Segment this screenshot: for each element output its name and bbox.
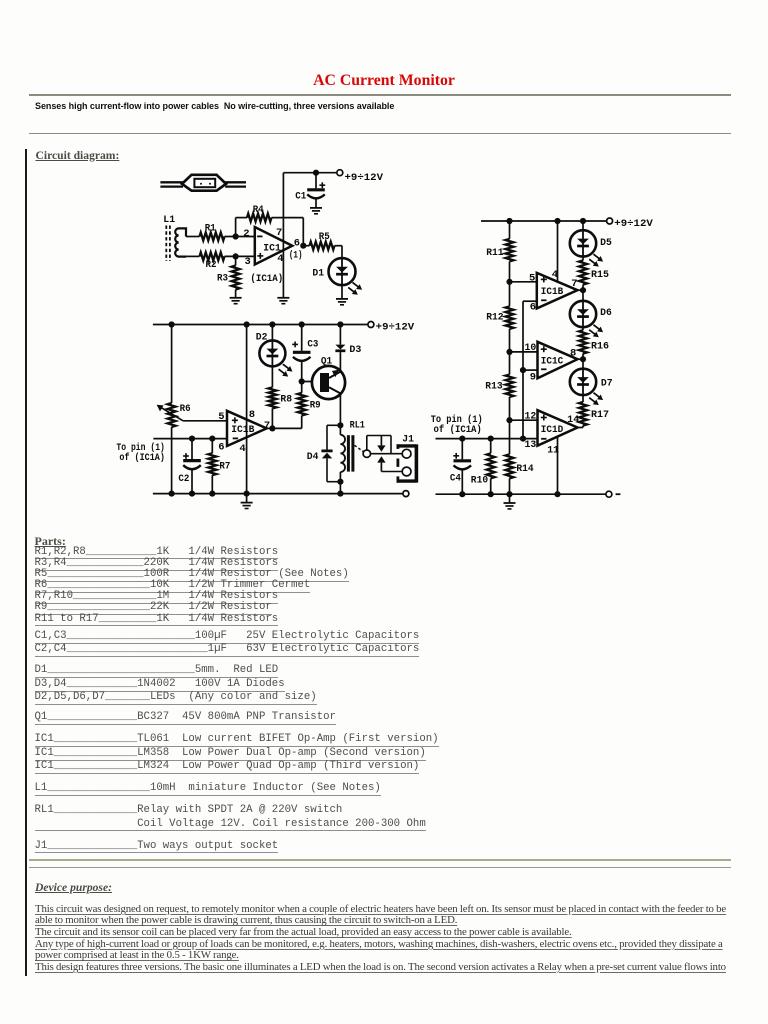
resistor R12 (486, 282, 513, 352)
ground below D1 (336, 299, 348, 305)
op-amp IC1A (255, 227, 292, 265)
capacitor C2 (178, 439, 200, 494)
svg-text:IC1B: IC1B (231, 424, 254, 435)
resistor R5 (310, 231, 335, 250)
capacitor C1 (295, 173, 325, 208)
resistor R15 (579, 257, 609, 291)
wire L1 top to R1 (186, 236, 200, 238)
output socket J1 (397, 433, 417, 482)
relay NC contact arrow (down) (377, 436, 385, 452)
minus label (616, 493, 621, 495)
wire NO contact to J1 bottom (381, 471, 402, 473)
wire pin6 down (feedback bus) (523, 301, 537, 438)
svg-text:R14: R14 (516, 463, 533, 475)
terminal +9-12V (middle) (368, 322, 374, 328)
svg-text:IC1B: IC1B (541, 286, 564, 297)
resistor R10 (471, 439, 495, 495)
junction base node (299, 378, 305, 384)
junction R13/R14 (506, 417, 512, 423)
resistor R13 (485, 352, 513, 420)
svg-text:5: 5 (529, 273, 535, 285)
svg-text:13: 13 (525, 439, 537, 451)
wire pivot to J1 top (371, 453, 403, 455)
svg-text:D1: D1 (312, 268, 324, 280)
trimmer R6 (157, 325, 191, 494)
LED D2 (256, 325, 293, 377)
resistor R1 (200, 223, 225, 241)
svg-text:R11: R11 (486, 247, 503, 259)
input line (right block) (436, 438, 538, 440)
supply stub pin11 (557, 437, 559, 495)
wire pin6 to R5 (303, 245, 309, 247)
0V rail (middle block) (153, 493, 403, 495)
svg-text:D3: D3 (349, 344, 361, 356)
op-amp IC1B (middle) (227, 411, 267, 446)
capacitor C4 (450, 439, 471, 495)
svg-text:R6: R6 (180, 403, 191, 415)
supply stub pin4 (right) (557, 221, 559, 282)
sensor coil on power cable (160, 175, 246, 191)
rail junctions (right) (506, 218, 512, 224)
svg-text:J1: J1 (402, 433, 414, 445)
op-amp IC1D (538, 410, 578, 446)
ground below 0V rail (right) (504, 503, 516, 509)
resistor R9 (298, 382, 321, 429)
svg-text:R16: R16 (591, 340, 609, 352)
wire R1 to node IN- (225, 236, 255, 238)
relay armature pivot (363, 450, 370, 457)
wire to pin12 (510, 419, 538, 421)
svg-text:R9: R9 (310, 400, 321, 412)
op-amp IC1C (538, 342, 578, 379)
wire Q1 collector down (339, 393, 341, 425)
svg-text:Q1: Q1 (321, 356, 332, 368)
svg-text:R13: R13 (485, 381, 502, 393)
wire IC1D out (578, 427, 584, 429)
svg-text:IC1D: IC1D (541, 424, 564, 435)
svg-text:3: 3 (245, 256, 251, 268)
terminal 0V (right) (606, 491, 612, 497)
relay contact loop (367, 436, 391, 454)
resistor R2 (200, 252, 225, 271)
ground below IC1A (277, 298, 289, 304)
wire to pin10 (510, 351, 538, 353)
svg-text:7: 7 (276, 227, 282, 239)
junction R12/R13 (506, 349, 512, 355)
0V rail (right block) (436, 493, 607, 495)
svg-text:6: 6 (530, 302, 536, 314)
output junction pin6 (300, 243, 306, 249)
relay NO contact arrow (up) (377, 456, 385, 471)
+V rail (middle block) (153, 324, 368, 326)
svg-text:R1: R1 (205, 223, 216, 235)
freewheel diode D4 (307, 425, 341, 481)
input line to pin 6 (153, 438, 227, 440)
svg-text:D6: D6 (600, 307, 612, 319)
LED D6 (570, 290, 612, 337)
svg-text:5: 5 (218, 411, 224, 423)
wire R6 wiper to pin5 (183, 420, 227, 422)
+V rail (right block) (481, 220, 607, 222)
svg-text:RL1: RL1 (350, 419, 365, 431)
svg-text:R2: R2 (206, 259, 217, 271)
wire IC1B out (578, 289, 584, 291)
svg-text:L1: L1 (163, 214, 175, 226)
resistor R14 (506, 420, 534, 494)
resistor R7 (208, 439, 230, 494)
relay RL1 coil (340, 419, 365, 481)
resistor R16 (579, 327, 609, 359)
LED D1 (312, 258, 362, 295)
junction C2 (189, 436, 195, 442)
transistor Q1 (312, 356, 345, 400)
junction R10 (488, 436, 494, 442)
LED D5 (570, 221, 612, 267)
junction relay bottom (337, 479, 343, 485)
svg-text:IC1C: IC1C (541, 355, 564, 366)
svg-text:+9÷12V: +9÷12V (345, 172, 384, 184)
svg-text:7: 7 (264, 420, 270, 432)
resistor R8 (268, 366, 292, 428)
svg-text:D4: D4 (307, 451, 319, 463)
junction R7 (209, 436, 215, 442)
svg-text:(1): (1) (289, 250, 303, 262)
svg-text:R8: R8 (280, 394, 292, 406)
svg-text:R12: R12 (486, 312, 503, 324)
wire relay to 0V rail (339, 482, 341, 494)
supply wire pin7/pin4 (282, 173, 284, 298)
junction pin9 bus (520, 367, 526, 373)
svg-text:C1: C1 (295, 191, 306, 203)
wire R2 to node IN+ (225, 255, 255, 257)
svg-text:R4: R4 (253, 204, 264, 216)
svg-text:R10: R10 (471, 474, 488, 486)
wire R5 to D1 (335, 245, 343, 247)
svg-text:R7: R7 (219, 461, 230, 473)
resistor R17 (579, 395, 609, 427)
op-amp IC1B (right) (537, 273, 578, 309)
wire base to Q1 (302, 381, 320, 383)
junction C4 (459, 436, 465, 442)
svg-text:C3: C3 (307, 339, 318, 351)
svg-text:R15: R15 (591, 269, 609, 281)
svg-text:R17: R17 (591, 409, 609, 421)
junction output/R8 (269, 425, 275, 431)
wire L1 bottom to R2 (186, 255, 200, 257)
svg-text:12: 12 (525, 411, 537, 423)
resistor R3 (217, 256, 240, 297)
svg-text:(IC1A): (IC1A) (250, 273, 283, 285)
supply wire pin8/pin4 (middle) (246, 325, 248, 494)
junction node pin3 (233, 253, 239, 259)
svg-text:4: 4 (239, 443, 245, 455)
svg-text:of (IC1A): of (IC1A) (119, 452, 164, 463)
terminal +9-12V (337, 170, 343, 176)
junction C1 top (313, 170, 319, 176)
junction node pin2 (233, 233, 239, 239)
terminal 0V (middle) (403, 491, 409, 497)
svg-text:C4: C4 (450, 473, 461, 485)
svg-text:9: 9 (530, 371, 536, 383)
ground below C1 (310, 208, 322, 214)
svg-text:2: 2 (243, 228, 249, 240)
svg-text:+9÷12V: +9÷12V (376, 321, 415, 333)
diode D3 (335, 325, 361, 372)
wire IC1C out (578, 358, 584, 360)
svg-text:of (IC1A): of (IC1A) (434, 424, 482, 435)
svg-text:14: 14 (567, 414, 579, 426)
wire to ground (middle) (246, 494, 248, 503)
svg-text:8: 8 (249, 409, 255, 421)
svg-text:D7: D7 (601, 378, 613, 390)
feedback resistor R4 (236, 204, 304, 246)
svg-text:R5: R5 (319, 231, 330, 243)
ground below R3 (230, 298, 242, 304)
output wire IC1B to R9 (267, 427, 302, 429)
svg-text:10: 10 (525, 342, 537, 354)
junction D5/D6 (580, 287, 586, 293)
svg-text:D2: D2 (256, 332, 268, 344)
junction relay top (337, 422, 343, 428)
svg-text:7: 7 (571, 278, 577, 290)
rail junctions (169, 321, 175, 327)
junction R11/R12 (506, 279, 512, 285)
wire to ground (right) (509, 494, 511, 503)
LED D7 (570, 359, 613, 405)
svg-text:+9÷12V: +9÷12V (614, 218, 653, 230)
+V rail top (283, 172, 337, 174)
svg-text:D5: D5 (600, 237, 612, 249)
resistor R11 (486, 221, 513, 282)
svg-text:C2: C2 (178, 473, 189, 485)
junction D6/D7 (580, 356, 586, 362)
rail junctions bottom (169, 491, 175, 497)
terminal +9-12V (right) (607, 218, 613, 224)
svg-text:6: 6 (294, 238, 300, 250)
wire D1 to ground (341, 285, 343, 299)
capacitor C3 (292, 325, 318, 382)
junction bus/input (520, 436, 526, 442)
rail junctions bottom (right) (459, 491, 465, 497)
wire bus to pin9 (523, 369, 538, 371)
inductor L1 (163, 214, 186, 261)
svg-text:6: 6 (218, 442, 224, 454)
svg-text:R3: R3 (217, 273, 228, 285)
svg-text:8: 8 (570, 348, 576, 360)
ground below 0V rail (241, 503, 253, 509)
wire to pin5 (right) (510, 281, 537, 283)
